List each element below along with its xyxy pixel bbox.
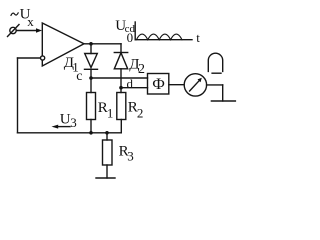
node output dot <box>89 42 93 46</box>
label D1 <box>64 55 79 75</box>
block F <box>148 74 169 95</box>
wire node d to F block <box>121 87 148 89</box>
resistor R2 <box>117 93 126 120</box>
waveform inset: label Ucd <box>115 18 135 35</box>
wire feedback down <box>17 58 19 133</box>
wire output <box>84 43 121 45</box>
bell HA1 <box>208 53 222 73</box>
arrow U3 <box>52 125 71 129</box>
resistor R1 <box>87 93 96 120</box>
wire R3 bottom <box>106 165 108 178</box>
ground right <box>211 100 235 102</box>
node d dot <box>119 86 123 90</box>
wire D1 anode <box>90 44 92 54</box>
wire R1 bottom <box>90 120 92 133</box>
svg-text:t: t <box>196 30 200 45</box>
wire R2 bottom <box>120 120 122 133</box>
label R3 <box>119 143 134 163</box>
node R3 top dot <box>105 131 109 135</box>
input terminal X1 <box>8 25 20 37</box>
wire R3 top <box>106 133 108 140</box>
label D2 <box>129 56 145 77</box>
svg-text:0: 0 <box>127 30 134 45</box>
resistor R3 <box>103 140 113 165</box>
wire F to meter <box>169 84 184 86</box>
label U3 <box>60 112 77 131</box>
wire feedback bottom <box>18 132 122 134</box>
waveform bumps <box>136 34 182 40</box>
diode D2 <box>114 53 127 69</box>
op-amp U1 <box>42 23 84 66</box>
wire meter to ground <box>207 85 223 101</box>
svg-text:3: 3 <box>70 115 77 130</box>
label ~Ux <box>20 6 35 29</box>
node c dot <box>89 76 93 80</box>
svg-text:Ф: Ф <box>152 76 165 93</box>
inverting input circle <box>41 56 45 60</box>
svg-text:x: x <box>27 14 34 29</box>
waveform axis horizontal <box>135 39 192 41</box>
ground R3 <box>96 177 115 179</box>
svg-text:3: 3 <box>127 148 134 163</box>
svg-text:1: 1 <box>107 105 114 120</box>
svg-text:U: U <box>60 112 71 128</box>
wire node c to F block <box>91 77 148 79</box>
wire input <box>16 30 37 32</box>
svg-text:2: 2 <box>137 106 144 121</box>
diode D1 <box>85 54 98 70</box>
tilde of ~Ux <box>11 13 18 15</box>
wire feedback left <box>18 57 41 59</box>
waveform axis vertical <box>134 22 136 40</box>
svg-text:c: c <box>76 69 82 84</box>
wire output corner down to D2 <box>120 44 122 53</box>
label R1 <box>98 100 114 120</box>
node R1 bottom dot <box>89 131 93 135</box>
wire D2 anode down <box>120 69 122 93</box>
label R2 <box>128 99 144 120</box>
svg-text:2: 2 <box>138 62 145 77</box>
wire D1 cathode <box>90 69 92 92</box>
meter PA1 <box>184 74 206 96</box>
arrowhead input <box>36 28 42 33</box>
